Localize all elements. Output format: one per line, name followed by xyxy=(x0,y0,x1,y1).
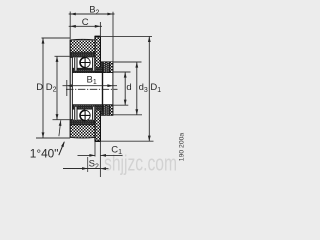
B1 dimension xyxy=(63,85,118,87)
d top extension xyxy=(113,71,130,73)
outer ring lower (checker block) xyxy=(70,125,95,138)
right seal upper xyxy=(92,58,95,71)
C1 left extension xyxy=(94,142,96,157)
eccentric collar upper (checker) xyxy=(95,37,100,67)
inner ring band upper (diagonal hatch) xyxy=(73,68,113,73)
D2 bottom extension xyxy=(53,119,71,121)
d bottom extension xyxy=(112,104,128,106)
collar top bold line xyxy=(95,35,101,37)
D2 top extension xyxy=(55,55,71,57)
collar bottom bold line xyxy=(95,140,101,142)
D bottom extension xyxy=(36,137,70,139)
B2 left extension xyxy=(69,12,71,40)
D1 dimension xyxy=(148,36,150,141)
B1 left extension xyxy=(66,80,68,96)
C1 dimension left tail xyxy=(78,154,96,156)
svg-text:D: D xyxy=(36,82,43,93)
d3 dimension xyxy=(136,62,138,115)
B2 right extension xyxy=(112,12,114,62)
S2 dimension right tail xyxy=(100,168,108,170)
C dimension xyxy=(69,25,102,27)
inner ring sleeve upper (diagonal hatch) xyxy=(95,62,113,73)
svg-text:C: C xyxy=(82,17,89,28)
D1 bottom extension xyxy=(101,140,154,142)
ball cross lower xyxy=(80,110,91,121)
sleeve right face line xyxy=(112,62,114,116)
misalignment angle arrow xyxy=(59,120,61,136)
inner ring sleeve lower (diagonal hatch) xyxy=(95,105,113,115)
D dimension xyxy=(42,38,44,138)
S2 dimension left tail xyxy=(63,168,100,170)
svg-text:190 200a: 190 200a xyxy=(179,133,186,162)
outer ring upper (checker block) xyxy=(70,39,95,52)
ball cross upper xyxy=(80,57,91,68)
outer ring raceway band upper (diagonal hatch) xyxy=(70,48,96,57)
B2 dimension xyxy=(69,13,115,15)
pin line through collar zone xyxy=(102,67,104,111)
grub screw bars lower xyxy=(103,105,113,116)
d dimension xyxy=(124,72,126,105)
left seal upper xyxy=(74,58,77,71)
inner ring band lower (diagonal hatch) xyxy=(73,105,113,110)
outer ring raceway band lower (diagonal hatch) xyxy=(70,120,96,129)
D1 top extension xyxy=(101,35,152,37)
ball lower xyxy=(80,110,90,120)
cavity white lower xyxy=(73,109,95,120)
cavity white upper xyxy=(73,57,95,68)
left seal lower xyxy=(74,107,77,120)
grub screw bars upper xyxy=(103,62,113,73)
d3 bottom extension xyxy=(112,114,142,116)
d3 top extension xyxy=(113,61,141,63)
C1 dimension right tail xyxy=(100,154,122,156)
S2 left extension xyxy=(87,157,89,172)
D top extension xyxy=(42,37,71,39)
right seal lower xyxy=(92,107,95,120)
svg-text:d: d xyxy=(126,82,131,93)
ball upper xyxy=(80,57,90,67)
C right extension xyxy=(99,22,101,36)
left face line inner xyxy=(71,57,73,120)
D2 dimension xyxy=(56,56,58,119)
svg-text:1°40": 1°40" xyxy=(30,147,59,161)
C1 right extension xyxy=(99,142,101,177)
left face line outer xyxy=(69,40,71,138)
1deg40 leader arrow xyxy=(59,142,64,155)
eccentric collar lower (checker) xyxy=(95,111,100,141)
